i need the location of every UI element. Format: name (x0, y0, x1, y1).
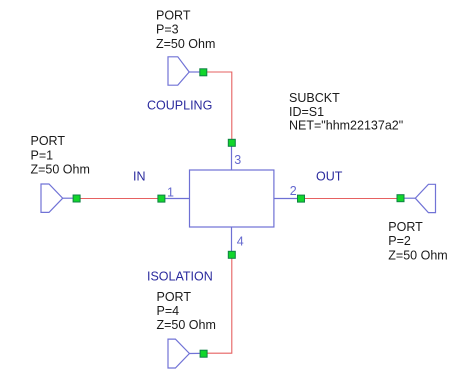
wire pin2 to port2 (305, 198, 398, 200)
label: PORT P=2 parameters (388, 220, 447, 262)
node: port P1 terminal (73, 195, 80, 202)
svg-text:IN: IN (133, 169, 146, 183)
svg-text:P=4: P=4 (157, 304, 180, 318)
svg-text:P=2: P=2 (388, 234, 411, 248)
port P4 symbol (168, 339, 200, 368)
node: pin 2 (298, 195, 305, 202)
node: port P4 terminal (200, 350, 207, 357)
port P2 symbol (404, 184, 436, 212)
wire port3 to pin3 (207, 72, 232, 139)
svg-text:PORT: PORT (156, 9, 191, 23)
svg-text:Z=50 Ohm: Z=50 Ohm (31, 162, 90, 176)
label: PORT P=3 parameters (156, 9, 215, 51)
svg-text:Z=50 Ohm: Z=50 Ohm (388, 248, 447, 262)
svg-text:3: 3 (234, 153, 241, 167)
node: port P2 terminal (397, 195, 404, 202)
svg-text:PORT: PORT (157, 290, 192, 304)
svg-text:Z=50 Ohm: Z=50 Ohm (157, 318, 216, 332)
svg-text:1: 1 (167, 185, 174, 199)
svg-text:OUT: OUT (316, 170, 343, 184)
wire port4 to pin4 (207, 258, 232, 353)
svg-text:COUPLING: COUPLING (147, 99, 212, 113)
pin 1 lead (165, 198, 190, 200)
node: port P3 terminal (200, 69, 207, 76)
port P3 symbol (168, 57, 199, 85)
svg-text:SUBCKT: SUBCKT (289, 91, 340, 105)
svg-text:PORT: PORT (388, 220, 423, 234)
svg-text:4: 4 (237, 235, 244, 249)
subcircuit box S1 (190, 170, 274, 227)
svg-text:NET="hhm22137a2": NET="hhm22137a2" (289, 119, 403, 133)
label: PORT P=4 parameters (157, 290, 216, 332)
pin 2 lead (274, 198, 299, 200)
svg-text:P=1: P=1 (31, 148, 54, 162)
label: SUBCKT S1 parameters (289, 91, 403, 133)
svg-text:PORT: PORT (31, 134, 66, 148)
node: pin 1 (158, 195, 165, 202)
svg-text:ID=S1: ID=S1 (289, 105, 324, 119)
node: pin 4 (228, 251, 235, 258)
port P1 symbol (41, 184, 73, 212)
node: pin 3 (228, 139, 235, 146)
pin 4 lead (231, 227, 233, 252)
svg-text:2: 2 (290, 184, 297, 198)
svg-text:Z=50 Ohm: Z=50 Ohm (156, 37, 215, 51)
svg-text:P=3: P=3 (156, 23, 179, 37)
svg-text:ISOLATION: ISOLATION (147, 270, 213, 284)
label: PORT P=1 parameters (31, 134, 90, 176)
pin 3 lead (231, 146, 233, 171)
wire port1 to pin1 (80, 198, 158, 200)
